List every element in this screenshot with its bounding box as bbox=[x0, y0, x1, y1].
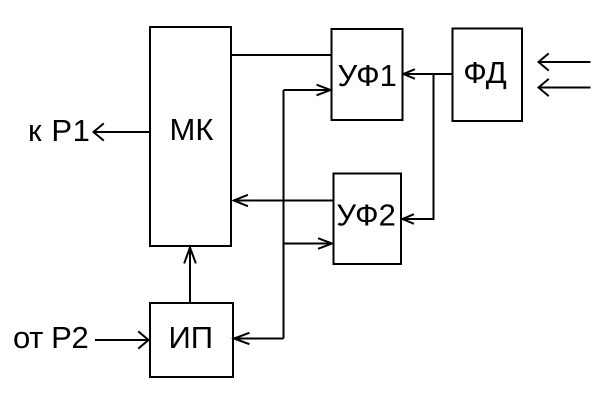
svg-text:ФД: ФД bbox=[463, 55, 507, 90]
svg-text:УФ1: УФ1 bbox=[337, 58, 396, 93]
svg-text:УФ2: УФ2 bbox=[336, 198, 395, 233]
svg-text:МК: МК bbox=[170, 112, 214, 147]
svg-text:ИП: ИП bbox=[169, 320, 214, 355]
svg-text:к Р1: к Р1 bbox=[28, 113, 91, 148]
svg-text:от Р2: от Р2 bbox=[13, 320, 88, 355]
